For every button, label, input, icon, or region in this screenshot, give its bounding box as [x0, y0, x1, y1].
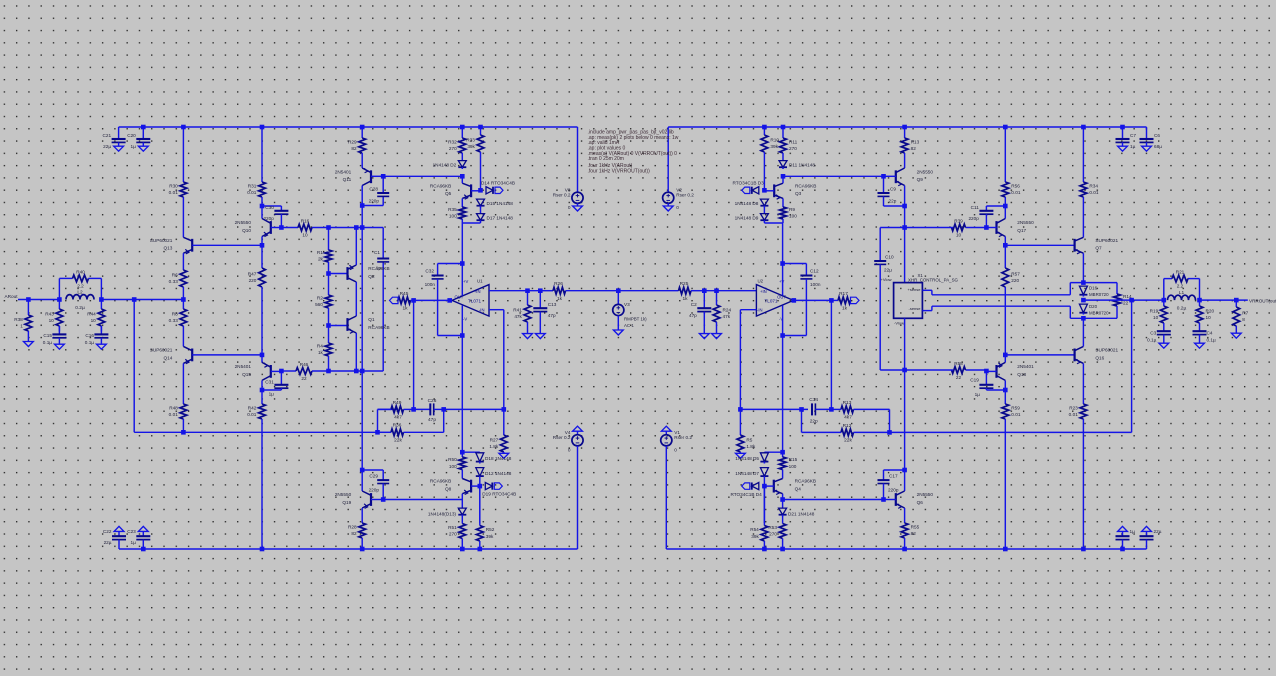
node fb mid node — [411, 407, 416, 412]
svg-text:TL071: TL071 — [468, 298, 481, 303]
svg-text:0.01: 0.01 — [1069, 412, 1079, 417]
label C3 — [1147, 331, 1157, 343]
voltage source V3 — [613, 302, 647, 328]
node rail-bias2 — [478, 125, 483, 130]
svg-text:22k: 22k — [394, 438, 402, 444]
wire Q14 base wire — [192, 354, 262, 356]
wire fb h2 — [444, 408, 504, 410]
svg-text:0.33: 0.33 — [169, 279, 179, 284]
svg-text:+IN: +IN — [760, 289, 767, 294]
resistor R26 1k — [553, 281, 618, 302]
node outnet L1 left — [1162, 298, 1167, 303]
wire fb low up — [443, 409, 445, 432]
wire bias col up2 — [782, 223, 784, 264]
node rail-C24 — [1120, 547, 1125, 552]
svg-text:270: 270 — [449, 146, 457, 151]
resistor R19 10 — [1150, 300, 1168, 331]
svg-text:R46: R46 — [300, 362, 309, 367]
wire vas2 top — [905, 227, 952, 229]
svg-text:-IN: -IN — [757, 308, 763, 313]
transistor Q18 2N5401 — [997, 362, 1035, 380]
svg-text:RMPBT 1k): RMPBT 1k) — [624, 317, 647, 322]
wire Q2 base — [329, 273, 348, 275]
wire q6 col — [904, 370, 906, 470]
svg-text:R56: R56 — [1011, 183, 1020, 188]
svg-text:SUP60021: SUP60021 — [150, 348, 173, 353]
resistor R44 10 — [87, 300, 105, 332]
wire V2 lead — [667, 127, 669, 192]
svg-text:22p: 22p — [810, 419, 818, 425]
wire C1 col — [382, 228, 384, 372]
svg-text:47p: 47p — [548, 313, 556, 318]
node drv node bot — [260, 353, 265, 358]
wire Q17 emitter — [1004, 237, 1006, 246]
capacitor C13 47p — [533, 291, 556, 334]
svg-text:R32: R32 — [448, 139, 457, 144]
svg-text:C10: C10 — [885, 255, 894, 260]
node fb right node — [441, 407, 446, 412]
node fb2 left node — [799, 407, 804, 412]
label C15 — [43, 333, 53, 345]
ground GND C3 — [1159, 343, 1169, 348]
node q19 c node — [360, 468, 365, 473]
svg-text:4k7: 4k7 — [844, 415, 852, 421]
svg-text:C6: C6 — [1154, 133, 1160, 138]
ic X1 XHR_CONTROL_PA_SG — [880, 273, 958, 326]
wire Q6 base stub — [884, 499, 896, 501]
label D5 — [735, 456, 759, 461]
svg-text:Q5: Q5 — [445, 191, 452, 196]
svg-text:Rser 0.2: Rser 0.2 — [674, 435, 692, 440]
wire c32 top — [438, 263, 463, 265]
resistor R45 1k — [398, 291, 414, 312]
svg-text:1N4148(D13): 1N4148(D13) — [428, 512, 457, 517]
svg-text:R57: R57 — [1011, 271, 1020, 276]
node outnet L1 right — [1197, 298, 1202, 303]
transistor Q16 SUP60021 — [1075, 346, 1119, 363]
wire V2 gnd lead — [667, 203, 669, 206]
svg-text:0.01: 0.01 — [169, 190, 179, 195]
svg-text:R16: R16 — [301, 219, 310, 224]
node dbox bot node — [1081, 316, 1086, 321]
transistor Q3 RCA96KB — [774, 183, 816, 199]
transistor Q8 RCA96KB — [430, 479, 471, 495]
inductor L2 0.2µ — [66, 289, 94, 311]
capacitor C7 1µ — [1116, 127, 1137, 149]
svg-text:R43: R43 — [45, 311, 54, 316]
wire Q15 collector — [261, 355, 263, 363]
svg-text:R4: R4 — [317, 343, 323, 348]
svg-text:0.01: 0.01 — [1089, 190, 1099, 195]
svg-text:+V: +V — [779, 279, 784, 284]
node drv2 node bot — [1003, 353, 1008, 358]
wire bias2 link top — [783, 175, 884, 177]
node bias d node — [478, 188, 483, 193]
transistor Q1 RCA96KB — [348, 316, 390, 333]
wire vas top 2 — [329, 227, 384, 229]
wire cm mid — [355, 228, 357, 266]
svg-text:2.2: 2.2 — [77, 283, 84, 288]
wire opamp2 -in — [740, 310, 756, 410]
node drv2 col C19 — [1003, 388, 1008, 393]
wire C30 link — [262, 205, 281, 207]
node rail-q19 col — [360, 547, 365, 552]
wire dbox top — [1070, 282, 1117, 284]
svg-text:0.01: 0.01 — [1011, 412, 1021, 417]
svg-text:R17: R17 — [839, 291, 848, 297]
wire Q18 base stub — [986, 370, 996, 372]
svg-text:R23: R23 — [1069, 405, 1078, 410]
ground GND R7 — [1231, 333, 1241, 338]
wire x1 sense- wire — [922, 306, 1070, 310]
svg-text:ARout: ARout — [5, 294, 19, 299]
svg-text:39k: 39k — [770, 144, 778, 149]
svg-text:R54: R54 — [750, 527, 759, 532]
svg-text:Q9: Q9 — [917, 177, 924, 182]
diode D20 MBR0720 — [1079, 304, 1087, 315]
transistor Q10 2N5550 — [235, 219, 271, 237]
resistor R25 1k — [679, 281, 705, 302]
svg-text:RCA96KB: RCA96KB — [795, 183, 816, 188]
wire C17 top link — [884, 470, 905, 480]
wire fb drop2 — [413, 300, 415, 409]
svg-text:.tran 0 25m 20m: .tran 0 25m 20m — [588, 156, 624, 162]
svg-text:100: 100 — [789, 464, 797, 469]
svg-text:-V: -V — [463, 317, 467, 322]
svg-text:1k: 1k — [318, 350, 324, 355]
node cm node1 — [326, 271, 331, 276]
wire Q10 emitter — [261, 237, 263, 246]
resistor R46 22 — [281, 362, 328, 381]
wire hr top left — [880, 227, 904, 229]
svg-text:1N4148 D9: 1N4148 D9 — [735, 215, 759, 220]
svg-text:220p: 220p — [888, 488, 899, 493]
wire out right 2 — [1200, 299, 1248, 301]
wire v3 gnd lead — [617, 316, 619, 330]
resistor R39 10 — [952, 219, 987, 238]
capacitor C11 220p — [968, 205, 993, 228]
svg-text:C7: C7 — [1130, 133, 1136, 138]
resistor R9 100 — [780, 198, 798, 223]
capacitor C4 0.1µ — [1193, 331, 1207, 343]
svg-text:Q2: Q2 — [368, 274, 375, 279]
svg-text:560: 560 — [315, 302, 323, 307]
svg-text:R13: R13 — [843, 400, 852, 406]
wire fb2 corner — [889, 409, 891, 432]
wire +in line 2 — [618, 290, 678, 292]
svg-text:R5: R5 — [746, 437, 752, 442]
svg-text:100: 100 — [449, 464, 457, 469]
svg-text:220: 220 — [1011, 278, 1019, 283]
wire bias col down3 — [782, 336, 784, 453]
svg-text:2N5550: 2N5550 — [335, 492, 352, 497]
svg-text:47p: 47p — [689, 313, 697, 318]
op-amp U1 TL071 — [452, 279, 489, 322]
svg-text:V3: V3 — [624, 302, 630, 307]
svg-text:1µ: 1µ — [1130, 529, 1136, 534]
label D18 — [485, 456, 512, 461]
node vas-mir1 top — [326, 225, 331, 230]
node vas2 node bot — [984, 369, 989, 374]
node rail bias b1 — [460, 547, 465, 552]
wire Q5 base stub — [471, 189, 480, 192]
wire out drop — [1131, 300, 1133, 432]
wire Q10 base stub — [271, 227, 282, 229]
wire c32 bottom — [438, 335, 463, 337]
wire Q9 emitter — [904, 186, 906, 207]
svg-text:C21: C21 — [102, 133, 111, 138]
ground GND C2 — [699, 334, 709, 339]
node in-L2 right — [99, 297, 104, 302]
resistor R15 100 — [779, 452, 797, 478]
node fb top node — [411, 298, 416, 303]
capacitor C17 220p — [878, 474, 899, 500]
svg-text:MBR0720: MBR0720 — [1089, 311, 1109, 316]
wire fb low left — [134, 431, 377, 433]
wire vas bot 2 — [329, 370, 384, 372]
label C4 — [1207, 331, 1217, 343]
resistor R38 1 — [14, 300, 32, 342]
node rail-R29 — [360, 125, 365, 130]
voltage source V1 — [661, 430, 693, 453]
diode D14 with port flag — [481, 180, 515, 194]
label C24 — [1130, 529, 1136, 534]
label C25 — [1154, 529, 1162, 534]
wire d4 col — [763, 486, 765, 523]
wire Q11 base stub — [371, 175, 383, 177]
inductor L1 0.2µ — [1168, 290, 1196, 312]
svg-text:1k: 1k — [402, 306, 408, 312]
ground GND C16 — [97, 344, 107, 349]
svg-text:RCA96KB: RCA96KB — [368, 266, 389, 271]
wire q3 link — [782, 176, 784, 183]
ground GND C23 up — [138, 526, 148, 531]
svg-text:0.01: 0.01 — [247, 412, 257, 417]
node rail-C20 — [141, 125, 146, 130]
svg-text:2N5550: 2N5550 — [235, 220, 252, 225]
ground GND V3 — [613, 330, 623, 335]
capacitor C32 100n — [425, 264, 444, 336]
wire R21 up-left — [1163, 279, 1165, 301]
wire vas col down2 — [361, 371, 363, 470]
node fb2 opamp node — [738, 407, 743, 412]
voltage source V4 — [553, 430, 583, 453]
ground GND R38 — [24, 342, 34, 347]
svg-text:0.2µ: 0.2µ — [75, 305, 85, 311]
wire bias col down2 — [461, 336, 463, 453]
node rail-bias3 — [762, 125, 767, 130]
svg-text:22µ: 22µ — [884, 268, 892, 273]
svg-text:R52: R52 — [486, 527, 495, 532]
capacitor C26 47p — [414, 398, 444, 423]
resistor R23 0.01 — [1069, 363, 1087, 549]
node drv2 col C11 — [1003, 204, 1008, 209]
node bias2 d node — [762, 188, 767, 193]
svg-text:XHR_CONTROL_PA_SG: XHR_CONTROL_PA_SG — [908, 278, 959, 283]
wire dbox left bot — [1069, 306, 1071, 318]
svg-text:220p: 220p — [369, 199, 380, 204]
resistor R41 47k — [513, 291, 531, 334]
label C23 — [127, 529, 136, 545]
svg-text:Q19: Q19 — [342, 500, 351, 505]
resistor R21 2.2 — [1164, 270, 1200, 289]
diode D3 with port flag — [732, 180, 764, 194]
node drv node top — [260, 243, 265, 248]
spice directive text block — [588, 130, 679, 175]
capacitor C23 1µ — [136, 531, 150, 549]
wire q11 col down — [361, 206, 363, 228]
svg-text:220p: 220p — [968, 216, 979, 221]
wire Q15 emitter — [261, 380, 263, 390]
node vas-col top — [360, 225, 365, 230]
wire V1 lead — [665, 446, 667, 549]
wire bias2 cell bottom — [764, 222, 783, 224]
capacitor C3 0.1µ — [1157, 331, 1171, 343]
svg-text:.four 1kHz V(VRROUT(out)): .four 1kHz V(VRROUT(out)) — [588, 168, 651, 174]
node bias2 bot node1 — [780, 450, 785, 455]
wire fb drop — [133, 300, 135, 433]
svg-text:22: 22 — [1123, 301, 1129, 306]
node opamp2 vcc node — [780, 261, 785, 266]
svg-text:R25: R25 — [680, 281, 689, 287]
svg-text:-sense: -sense — [908, 306, 921, 311]
wire q7 emitter down — [1082, 253, 1084, 282]
svg-text:V8: V8 — [565, 187, 571, 192]
resistor R36 22k — [378, 423, 444, 444]
svg-text:2N5401: 2N5401 — [1017, 364, 1034, 369]
resistor R20 10 — [1196, 300, 1214, 331]
wire q9 col down2 — [904, 228, 906, 283]
svg-text:D19 RTO34C4B: D19 RTO34C4B — [482, 492, 516, 497]
wire Q10 collector — [261, 206, 263, 219]
capacitor C25 22µ — [1140, 531, 1154, 549]
net label VRROUT — [1249, 299, 1276, 304]
op-amp U2 TL071 — [756, 279, 793, 322]
node q6 c node — [902, 468, 907, 473]
svg-text:L2: L2 — [77, 289, 83, 295]
wire d17 end — [480, 222, 482, 223]
node q11 b node — [381, 174, 386, 179]
svg-text:R13: R13 — [911, 139, 920, 144]
svg-text:V1: V1 — [674, 430, 680, 435]
svg-text:Q13: Q13 — [164, 246, 173, 251]
svg-text:C22: C22 — [103, 529, 112, 534]
wire +in line 1 — [540, 290, 553, 292]
svg-text:10: 10 — [302, 233, 308, 238]
svg-text:D16: D16 — [1089, 286, 1098, 291]
svg-text:R30: R30 — [169, 183, 178, 188]
diode D12 1N4148 — [476, 467, 484, 478]
svg-text:0: 0 — [676, 205, 679, 210]
wire V1 gnd lead — [665, 431, 667, 435]
svg-text:1k: 1k — [842, 306, 848, 312]
wire dbox left top — [1069, 283, 1071, 295]
wire opamp v+ stub — [461, 264, 463, 296]
svg-text:R45: R45 — [400, 291, 409, 297]
svg-text:100n: 100n — [425, 282, 436, 287]
svg-text:220: 220 — [249, 278, 257, 283]
svg-text:1N4148 D7: 1N4148 D7 — [735, 471, 759, 476]
transistor Q17 2N5550 — [997, 219, 1035, 237]
svg-text:R49: R49 — [393, 400, 402, 406]
svg-text:D12 1N4148: D12 1N4148 — [485, 471, 512, 476]
svg-text:R34: R34 — [1089, 183, 1098, 188]
label D21 — [788, 512, 815, 517]
node c13 node — [538, 288, 543, 293]
svg-text:R55: R55 — [911, 524, 920, 529]
resistor R30 0.01 — [169, 127, 187, 237]
node vas-mir1 bot — [326, 369, 331, 374]
svg-text:C4: C4 — [1207, 331, 1213, 336]
svg-text:22k: 22k — [844, 438, 852, 444]
node rail-q6 col — [902, 547, 907, 552]
svg-text:L1: L1 — [1179, 290, 1185, 296]
svg-text:Q18: Q18 — [1017, 372, 1026, 377]
node in-L2 left — [57, 297, 62, 302]
node bias2 top node — [781, 174, 786, 179]
svg-text:C20: C20 — [127, 133, 136, 138]
node cm node2 — [326, 323, 331, 328]
ground GND R5 — [736, 453, 746, 458]
svg-text:Q11: Q11 — [343, 177, 352, 182]
svg-text:V2: V2 — [676, 187, 682, 192]
ground GND C20 — [138, 146, 148, 151]
resistor R11 270 — [780, 127, 798, 160]
capacitor C28 220p — [369, 176, 390, 203]
wire fb2 drop2 — [801, 409, 803, 432]
wire C29 top link — [362, 470, 383, 480]
node r24 node — [714, 288, 719, 293]
node opamp2 vee node — [780, 333, 785, 338]
capacitor C6 68µ — [1140, 127, 1163, 149]
diode D13 1N4148 — [458, 508, 466, 517]
svg-text:0.1µ: 0.1µ — [43, 340, 53, 345]
svg-text:82: 82 — [911, 146, 917, 151]
wire q9 col down — [904, 206, 906, 228]
svg-text:SUP60021: SUP60021 — [1095, 238, 1118, 243]
node dbox mid node — [1081, 298, 1086, 303]
wire v3 lead — [617, 291, 619, 305]
svg-text:22µ: 22µ — [1154, 529, 1162, 534]
svg-text:+sense: +sense — [907, 287, 921, 292]
svg-text:1N4148 D5: 1N4148 D5 — [735, 456, 759, 461]
resistor R52 39k — [476, 486, 494, 549]
wire dbox bottom — [1070, 317, 1117, 319]
diode D21 1N4148 — [779, 508, 787, 517]
resistor R56 0.01 — [1002, 127, 1021, 206]
wire hr bot left — [880, 369, 904, 371]
node rail-R13 — [902, 125, 907, 130]
svg-text:1.8k: 1.8k — [489, 444, 499, 449]
wire q5 link — [461, 176, 463, 183]
diode D16 MBR0720 — [1079, 286, 1087, 297]
svg-text:D18 1N4148: D18 1N4148 — [485, 456, 512, 461]
resistor R58 22 — [952, 361, 987, 380]
svg-text:C13: C13 — [548, 302, 557, 307]
svg-text:8: 8 — [1242, 317, 1245, 322]
svg-text:U1: U1 — [477, 279, 483, 284]
capacitor C2 47p — [689, 291, 711, 334]
wire C9 bottom link — [884, 196, 905, 206]
wire bias cell bottom — [462, 222, 480, 224]
svg-text:10: 10 — [956, 233, 962, 238]
svg-text:1N4148 D2: 1N4148 D2 — [433, 162, 457, 167]
wire vas col down — [361, 228, 363, 372]
wire cm mid3 — [355, 333, 357, 371]
svg-text:R42: R42 — [248, 405, 257, 410]
svg-text:R39: R39 — [954, 219, 963, 224]
diode D18 1N4148 — [476, 452, 484, 463]
